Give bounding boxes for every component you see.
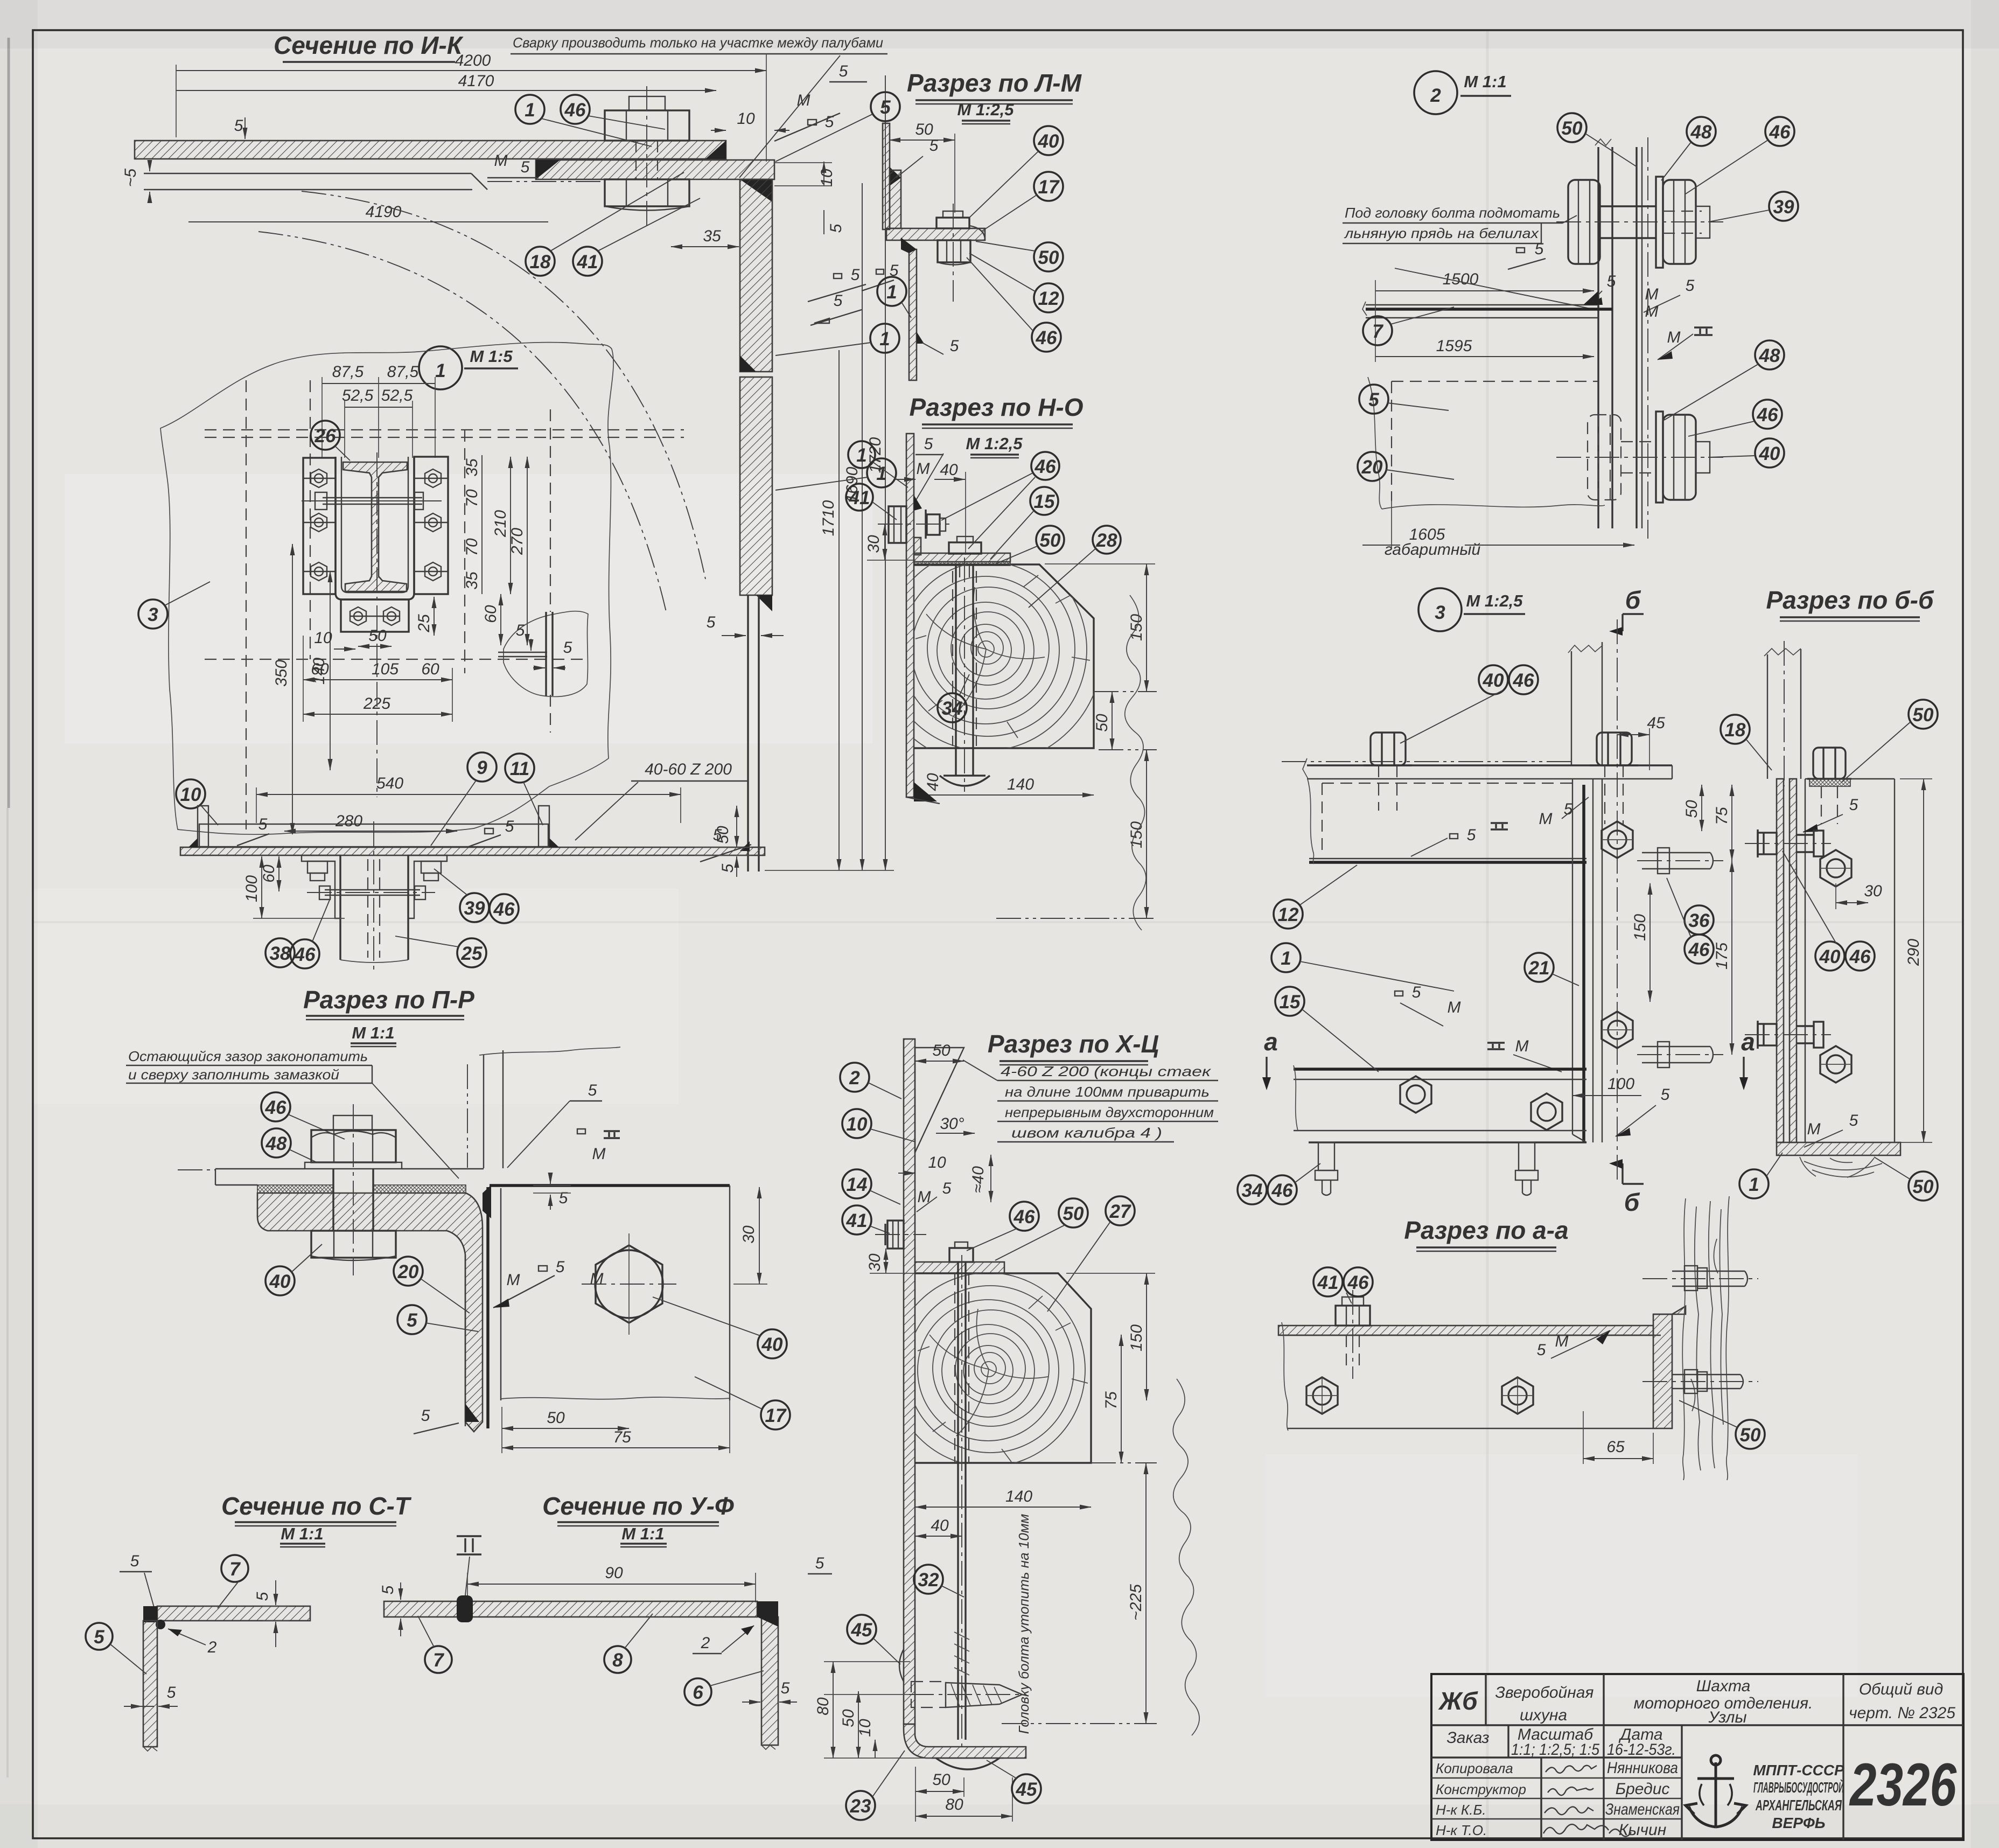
svg-text:5: 5 xyxy=(851,266,860,284)
face bolts on plate xyxy=(1306,1377,1533,1414)
callout 1 bottom xyxy=(1739,1153,1783,1198)
svg-text:1: 1 xyxy=(1749,1174,1759,1195)
svg-text:Зверобойная: Зверобойная xyxy=(1495,1684,1594,1701)
svg-text:46: 46 xyxy=(493,899,515,920)
face bolts on plate xyxy=(1820,850,1851,1083)
black weld triangle top xyxy=(483,1185,491,1218)
left plate hex nuts xyxy=(303,469,336,581)
angle vertical bit xyxy=(914,538,921,555)
svg-text:Сечение по С-Т: Сечение по С-Т xyxy=(221,1492,412,1520)
svg-text:М: М xyxy=(507,1271,520,1289)
svg-text:М: М xyxy=(592,1145,606,1163)
svg-text:5: 5 xyxy=(929,137,939,155)
svg-text:5: 5 xyxy=(1686,277,1695,295)
svg-text:М: М xyxy=(1515,1037,1529,1055)
svg-text:5: 5 xyxy=(1849,1112,1858,1129)
right angle bracket xyxy=(408,855,447,918)
svg-text:1: 1 xyxy=(1281,948,1291,969)
svg-text:5: 5 xyxy=(719,863,737,873)
fold creases xyxy=(1486,30,1489,1838)
I-symbols xyxy=(1491,823,1508,829)
left angle bolt xyxy=(307,861,327,873)
svg-text:5: 5 xyxy=(254,1592,271,1601)
horizontal flat bar hatched xyxy=(157,1606,310,1621)
svg-text:Разрез по Л-М: Разрез по Л-М xyxy=(907,69,1082,97)
svg-text:17: 17 xyxy=(765,1405,787,1426)
shaft plate xyxy=(904,1039,915,1724)
svg-text:5: 5 xyxy=(942,1180,952,1197)
svg-text:48: 48 xyxy=(1759,345,1780,366)
svg-text:40: 40 xyxy=(924,773,942,791)
svg-text:б: б xyxy=(1624,1188,1640,1216)
upper bolt: hex head left xyxy=(1568,180,1600,264)
svg-text:40: 40 xyxy=(761,1334,783,1355)
lower hex nut xyxy=(311,1231,396,1258)
dims right 35 70 70 35 210 270 xyxy=(481,455,483,594)
callout 3 xyxy=(138,582,210,629)
svg-text:25: 25 xyxy=(461,943,483,964)
svg-text:100: 100 xyxy=(1607,1075,1634,1093)
washer xyxy=(1656,177,1663,268)
svg-text:50: 50 xyxy=(1093,714,1111,732)
signatures xyxy=(1546,1766,1597,1773)
washer and head right of plate xyxy=(925,510,926,539)
callout 15 xyxy=(990,487,1058,559)
svg-text:М: М xyxy=(1645,285,1659,303)
callout 2 xyxy=(840,1063,901,1099)
callout 46 xyxy=(967,1202,1039,1251)
svg-text:Головку болта утопить на 10мм: Головку болта утопить на 10мм xyxy=(1016,1514,1032,1734)
anchor emblem xyxy=(1686,1755,1746,1827)
svg-text:2: 2 xyxy=(701,1634,710,1652)
dim 30 xyxy=(884,524,885,560)
svg-text:52,5: 52,5 xyxy=(342,387,374,405)
svg-text:4170: 4170 xyxy=(458,72,494,90)
hidden line grid: horizontal dashed pair xyxy=(205,429,684,430)
callout 26 xyxy=(311,421,350,461)
svg-text:10: 10 xyxy=(847,1114,868,1135)
svg-text:МППТ-СССР: МППТ-СССР xyxy=(1753,1762,1844,1779)
svg-text:Узлы: Узлы xyxy=(1708,1708,1746,1726)
bolt square tip xyxy=(333,1115,372,1130)
small bolt above flange xyxy=(955,1242,968,1248)
svg-text:М 1:1: М 1:1 xyxy=(281,1524,323,1543)
svg-text:35: 35 xyxy=(463,571,481,590)
svg-text:2326: 2326 xyxy=(1849,1751,1956,1818)
view mark 2 xyxy=(1414,71,1511,114)
callout 12 xyxy=(1274,865,1357,929)
svg-text:5: 5 xyxy=(563,639,572,657)
dims left 350 140 xyxy=(292,544,293,834)
svg-text:150: 150 xyxy=(1128,821,1145,848)
svg-text:50: 50 xyxy=(1740,1425,1761,1446)
svg-text:Разрез по а-а: Разрез по а-а xyxy=(1404,1216,1568,1244)
row dividers 3-5 xyxy=(1431,1777,1682,1779)
svg-text:1: 1 xyxy=(886,282,897,303)
svg-text:30: 30 xyxy=(865,535,883,553)
svg-text:М: М xyxy=(590,1270,604,1288)
svg-text:5: 5 xyxy=(1535,240,1544,258)
callouts 39 46 xyxy=(434,869,489,922)
svg-text:Разрез по б-б: Разрез по б-б xyxy=(1766,586,1934,614)
nut right xyxy=(1663,180,1696,264)
nut right xyxy=(1663,415,1696,500)
svg-text:540: 540 xyxy=(376,775,403,792)
callout 20 xyxy=(394,1257,470,1313)
wood beam 28 xyxy=(914,564,1094,748)
I-beam section hatched xyxy=(343,462,407,591)
svg-text:46: 46 xyxy=(1035,456,1056,477)
svg-text:М 1:5: М 1:5 xyxy=(470,347,513,366)
svg-text:5: 5 xyxy=(588,1082,597,1099)
callout 11 xyxy=(505,754,543,825)
deck plate (1) hatched xyxy=(135,141,726,159)
callout 45 xyxy=(847,1615,900,1664)
svg-text:40: 40 xyxy=(931,1517,949,1535)
dark welded plate strip xyxy=(486,1187,490,1428)
svg-text:46: 46 xyxy=(1849,946,1871,967)
weld bead left end of angle leg xyxy=(536,160,560,179)
svg-text:15: 15 xyxy=(1034,491,1055,512)
svg-text:50: 50 xyxy=(547,1409,565,1427)
svg-text:шхуна: шхуна xyxy=(1520,1706,1567,1724)
stud bolts right xyxy=(1642,848,1713,1068)
weld bead at deck/angle corner xyxy=(705,141,726,159)
svg-text:41: 41 xyxy=(577,252,598,273)
lower bolt hidden: hex head left xyxy=(1588,415,1621,500)
svg-text:27: 27 xyxy=(1109,1201,1131,1222)
vertical angle bar hatched xyxy=(740,179,772,372)
svg-text:Н-к К.Б.: Н-к К.Б. xyxy=(1436,1802,1486,1818)
plate 17 top edge xyxy=(490,1184,730,1187)
washer xyxy=(1656,412,1663,503)
svg-text:40: 40 xyxy=(1483,670,1504,691)
thin plate xyxy=(1635,147,1637,528)
callout 18 xyxy=(526,172,684,276)
callout 50 bottom xyxy=(1874,1157,1938,1201)
svg-text:a: a xyxy=(1264,1028,1278,1056)
deck hatched strip xyxy=(180,847,765,855)
callout 9 xyxy=(431,752,497,846)
svg-text:87,5: 87,5 xyxy=(387,363,419,381)
svg-text:5: 5 xyxy=(1537,1341,1546,1359)
callout 48 lower xyxy=(1664,340,1784,420)
callout 14 xyxy=(842,1169,900,1204)
callout 17 xyxy=(695,1377,790,1429)
dim 75 xyxy=(1121,1335,1122,1463)
callout 50 xyxy=(976,241,1063,271)
centreline xyxy=(1647,137,1648,539)
callout 1 xyxy=(877,277,911,318)
svg-text:50: 50 xyxy=(1040,530,1061,551)
washer bump on plate xyxy=(899,1649,904,1682)
svg-text:50: 50 xyxy=(1683,800,1701,818)
callout 32 xyxy=(914,1565,964,1597)
foot of plate xyxy=(904,1724,1026,1758)
svg-text:140: 140 xyxy=(1007,776,1034,793)
svg-text:60: 60 xyxy=(421,660,439,678)
svg-text:40: 40 xyxy=(1819,946,1841,967)
callout 40 xyxy=(265,1244,322,1295)
svg-text:34: 34 xyxy=(942,698,963,719)
view mark 1 М1:5 xyxy=(419,346,518,389)
svg-text:14: 14 xyxy=(847,1174,868,1195)
svg-text:5: 5 xyxy=(234,117,243,135)
svg-text:М: М xyxy=(1667,329,1681,346)
svg-text:ГЛАВРЫБОСУДОСТРОЙ: ГЛАВРЫБОСУДОСТРОЙ xyxy=(1753,1779,1844,1796)
svg-text:льняную прядь на белилах: льняную прядь на белилах xyxy=(1344,225,1539,241)
bolt hex nut xyxy=(311,1130,396,1162)
top beam xyxy=(1307,764,1672,766)
svg-text:5: 5 xyxy=(521,158,530,176)
svg-text:5: 5 xyxy=(407,1310,417,1331)
svg-text:1595: 1595 xyxy=(1436,337,1472,355)
svg-text:39: 39 xyxy=(1773,197,1794,218)
svg-text:10: 10 xyxy=(928,1154,946,1171)
callout 46 xyxy=(1686,117,1794,194)
shank xyxy=(1600,205,1656,207)
svg-text:5: 5 xyxy=(707,613,716,631)
svg-text:швом калибра 4 ): швом калибра 4 ) xyxy=(1011,1125,1162,1141)
svg-text:АРХАНГЕЛЬСКАЯ: АРХАНГЕЛЬСКАЯ xyxy=(1755,1797,1842,1814)
svg-text:Конструктор: Конструктор xyxy=(1436,1781,1526,1797)
callout 10 xyxy=(176,779,218,825)
svg-text:непрерывным двухсторонним: непрерывным двухсторонним xyxy=(1005,1104,1214,1120)
wood post xyxy=(1682,1198,1686,1480)
svg-text:15: 15 xyxy=(1280,992,1301,1013)
lag screw xyxy=(909,1694,1026,1695)
vertical dashed lines xyxy=(246,380,247,829)
svg-text:40: 40 xyxy=(1038,131,1059,152)
vertical web edge line xyxy=(465,1255,466,1426)
dim ~225 xyxy=(1145,1463,1147,1724)
dim 30 right xyxy=(759,1187,760,1284)
bolt 46: square tip xyxy=(629,96,665,110)
svg-text:5: 5 xyxy=(516,622,525,639)
lower beam 15 xyxy=(1294,1068,1586,1071)
svg-text:5: 5 xyxy=(94,1627,104,1648)
callout 27 xyxy=(1047,1196,1135,1312)
svg-text:Под головку болта подмотать: Под головку болта подмотать xyxy=(1345,205,1560,221)
svg-text:50: 50 xyxy=(1913,1176,1934,1197)
column lines rows3-6 xyxy=(1540,1758,1542,1840)
svg-text:46: 46 xyxy=(1513,670,1534,691)
svg-text:36: 36 xyxy=(1689,910,1710,931)
svg-text:Разрез по П-Р: Разрез по П-Р xyxy=(303,986,474,1014)
svg-text:87,5: 87,5 xyxy=(332,363,364,381)
mid face bolts xyxy=(1602,821,1633,1048)
angle horizontal leg (18) hatched xyxy=(536,160,774,179)
horizontal bolts to post xyxy=(1672,1266,1748,1393)
svg-text:1: 1 xyxy=(879,329,890,350)
bolt centreline xyxy=(646,86,647,226)
svg-text:7: 7 xyxy=(433,1650,444,1671)
svg-text:5: 5 xyxy=(880,97,891,118)
row divider 1 xyxy=(1431,1724,1963,1726)
deck stringer thick bar xyxy=(1366,308,1612,311)
svg-text:50: 50 xyxy=(1913,705,1934,726)
svg-text:40: 40 xyxy=(1759,443,1780,464)
callouts 40 46 top xyxy=(1479,665,1508,694)
svg-text:5: 5 xyxy=(924,435,933,453)
svg-text:Разрез по Н-О: Разрез по Н-О xyxy=(910,393,1084,421)
svg-text:5: 5 xyxy=(167,1684,176,1701)
svg-text:М: М xyxy=(797,92,810,109)
bracket: left clamp plate xyxy=(303,458,336,594)
svg-text:45: 45 xyxy=(851,1620,872,1641)
svg-text:1: 1 xyxy=(435,360,445,381)
upper plank 12 xyxy=(1309,861,1586,864)
svg-text:М: М xyxy=(917,460,930,478)
callout 20 xyxy=(1358,452,1454,481)
svg-text:5: 5 xyxy=(781,1679,790,1697)
svg-text:175: 175 xyxy=(1713,943,1731,970)
svg-text:46: 46 xyxy=(265,1097,286,1118)
callout 15 xyxy=(1275,987,1379,1072)
flat bar hatched xyxy=(1278,1326,1653,1335)
callout 46 lower xyxy=(1688,400,1782,436)
svg-text:80: 80 xyxy=(945,1796,963,1814)
svg-text:Остающийся зазор законопатит: Остающийся зазор законопатить xyxy=(128,1048,368,1064)
dim 150 upper right xyxy=(1146,564,1147,692)
callout 50 xyxy=(995,1198,1088,1260)
upper channel above beam xyxy=(1571,651,1572,765)
svg-text:5: 5 xyxy=(1467,826,1476,844)
svg-text:габаритный: габаритный xyxy=(1385,541,1481,559)
bolt centreline xyxy=(953,204,954,302)
svg-text:4200: 4200 xyxy=(455,52,491,69)
callout 10 xyxy=(842,1109,915,1142)
svg-text:41: 41 xyxy=(846,1210,868,1231)
face plate xyxy=(1805,779,1806,1142)
svg-text:и сверху заполнить замазкой: и сверху заполнить замазкой xyxy=(128,1066,339,1083)
bolt shank hidden through plates xyxy=(635,141,637,179)
vertical dims 1710 1690 1720 xyxy=(838,350,840,870)
svg-text:2: 2 xyxy=(207,1638,217,1656)
upper beam xyxy=(1767,654,1768,779)
bolts on top beam xyxy=(1364,733,1638,765)
washer curve right xyxy=(969,226,985,240)
svg-text:46: 46 xyxy=(1757,405,1778,426)
svg-text:5: 5 xyxy=(1849,796,1858,814)
svg-text:12: 12 xyxy=(1038,288,1059,309)
bulkhead plate hatched xyxy=(1777,779,1784,1142)
svg-text:Сечение по И-К: Сечение по И-К xyxy=(274,31,464,59)
svg-text:5: 5 xyxy=(559,1189,568,1207)
callout 1 right xyxy=(775,324,899,355)
svg-text:5: 5 xyxy=(1661,1086,1670,1104)
I-symbol xyxy=(1694,327,1713,335)
callouts 36 46 xyxy=(1685,905,1714,935)
callout 41 xyxy=(842,1205,890,1235)
dashed hidden edge xyxy=(1322,783,1572,784)
callout 1 xyxy=(1271,943,1454,991)
weld blob at butt joint xyxy=(457,1595,473,1622)
nut below leg xyxy=(938,240,970,262)
svg-text:80: 80 xyxy=(814,1697,832,1715)
svg-text:М: М xyxy=(1807,1120,1821,1138)
svg-text:10: 10 xyxy=(314,629,332,647)
svg-text:Копировала: Копировала xyxy=(1436,1760,1513,1776)
svg-text:20: 20 xyxy=(397,1261,419,1282)
vertical angle right hatched xyxy=(1653,1314,1672,1428)
svg-text:4-60 Z 200 (концы стаек: 4-60 Z 200 (концы стаек xyxy=(1001,1063,1212,1079)
svg-text:Жб: Жб xyxy=(1438,1687,1478,1715)
svg-text:5: 5 xyxy=(815,1554,824,1572)
svg-text:17: 17 xyxy=(1038,177,1060,198)
svg-text:50: 50 xyxy=(1038,247,1059,268)
svg-text:350: 350 xyxy=(272,660,290,687)
svg-text:46: 46 xyxy=(564,100,586,121)
svg-text:48: 48 xyxy=(1690,122,1712,143)
svg-text:5: 5 xyxy=(556,1258,565,1276)
leader from note 5 xyxy=(739,55,840,178)
thread marks xyxy=(954,1632,969,1675)
callout 46 xyxy=(261,1092,345,1139)
dims 80 50 10 left xyxy=(833,1662,834,1758)
callout 40 lower xyxy=(1708,438,1784,468)
svg-text:5: 5 xyxy=(258,815,268,833)
svg-text:М 1:1: М 1:1 xyxy=(352,1023,394,1042)
caulk layer cross hatched xyxy=(257,1185,333,1193)
callout 28 xyxy=(1029,526,1121,608)
column lines row1 xyxy=(1485,1674,1486,1725)
phantom corner arcs xyxy=(302,191,705,579)
bolt through wood xyxy=(955,564,956,776)
svg-text:М: М xyxy=(1448,999,1461,1016)
svg-text:1: 1 xyxy=(856,445,866,466)
svg-text:Заказ: Заказ xyxy=(1446,1729,1489,1747)
callout 1 xyxy=(848,441,908,487)
svg-text:М: М xyxy=(1555,1333,1569,1350)
studs bottom xyxy=(1315,1142,1538,1195)
I-beam weld symbol xyxy=(457,1536,481,1554)
svg-text:41: 41 xyxy=(849,487,870,508)
svg-text:46: 46 xyxy=(1347,1272,1369,1293)
weld bead xyxy=(890,167,901,186)
svg-text:7: 7 xyxy=(229,1559,241,1580)
callout 41 xyxy=(573,198,700,276)
svg-text:Нянникова: Нянникова xyxy=(1607,1759,1678,1777)
svg-text:2: 2 xyxy=(1430,85,1441,106)
hidden beam dashed xyxy=(1392,381,1598,382)
svg-text:5: 5 xyxy=(379,1585,397,1594)
centreline of bracket xyxy=(376,452,378,797)
channel plate xyxy=(1597,147,1599,528)
gusset xyxy=(915,1048,964,1153)
central pipe 25 xyxy=(339,855,341,960)
svg-text:Разрез по Х-Ц: Разрез по Х-Ц xyxy=(988,1030,1159,1058)
small bolt on flange xyxy=(957,536,973,542)
svg-text:46: 46 xyxy=(1271,1180,1293,1201)
callout 46 xyxy=(561,95,665,129)
svg-text:16-12-53г.: 16-12-53г. xyxy=(1607,1741,1676,1759)
top bolt xyxy=(1807,748,1851,779)
svg-text:75: 75 xyxy=(1102,1391,1120,1410)
title block outer frame xyxy=(1431,1674,1963,1840)
svg-text:М 1:1: М 1:1 xyxy=(1464,72,1506,91)
bottom angle leg xyxy=(1572,1134,1586,1142)
svg-text:1:1; 1:2,5; 1:5: 1:1; 1:2,5; 1:5 xyxy=(1511,1741,1599,1759)
plate face below xyxy=(1284,1335,1661,1336)
svg-text:6: 6 xyxy=(693,1682,703,1703)
svg-text:18: 18 xyxy=(1725,720,1746,741)
svg-text:32: 32 xyxy=(918,1570,939,1591)
svg-text:70: 70 xyxy=(463,489,481,507)
svg-text:46: 46 xyxy=(294,944,316,965)
svg-text:210: 210 xyxy=(492,510,509,538)
wood plank hatched xyxy=(257,1193,483,1432)
